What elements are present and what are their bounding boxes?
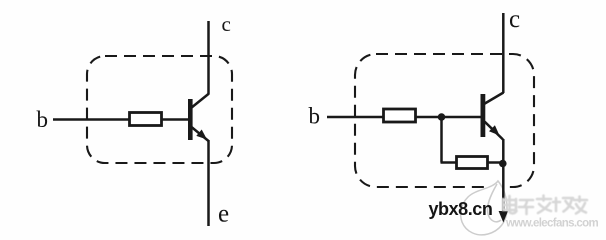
- svg-text:b: b: [37, 107, 49, 132]
- svg-text:e: e: [218, 201, 229, 228]
- svg-text:www.elecfans.com: www.elecfans.com: [505, 218, 598, 230]
- svg-text:ybx8.cn: ybx8.cn: [429, 199, 493, 219]
- svg-text:c: c: [222, 12, 231, 36]
- svg-text:c: c: [509, 6, 520, 33]
- svg-text:b: b: [309, 103, 321, 128]
